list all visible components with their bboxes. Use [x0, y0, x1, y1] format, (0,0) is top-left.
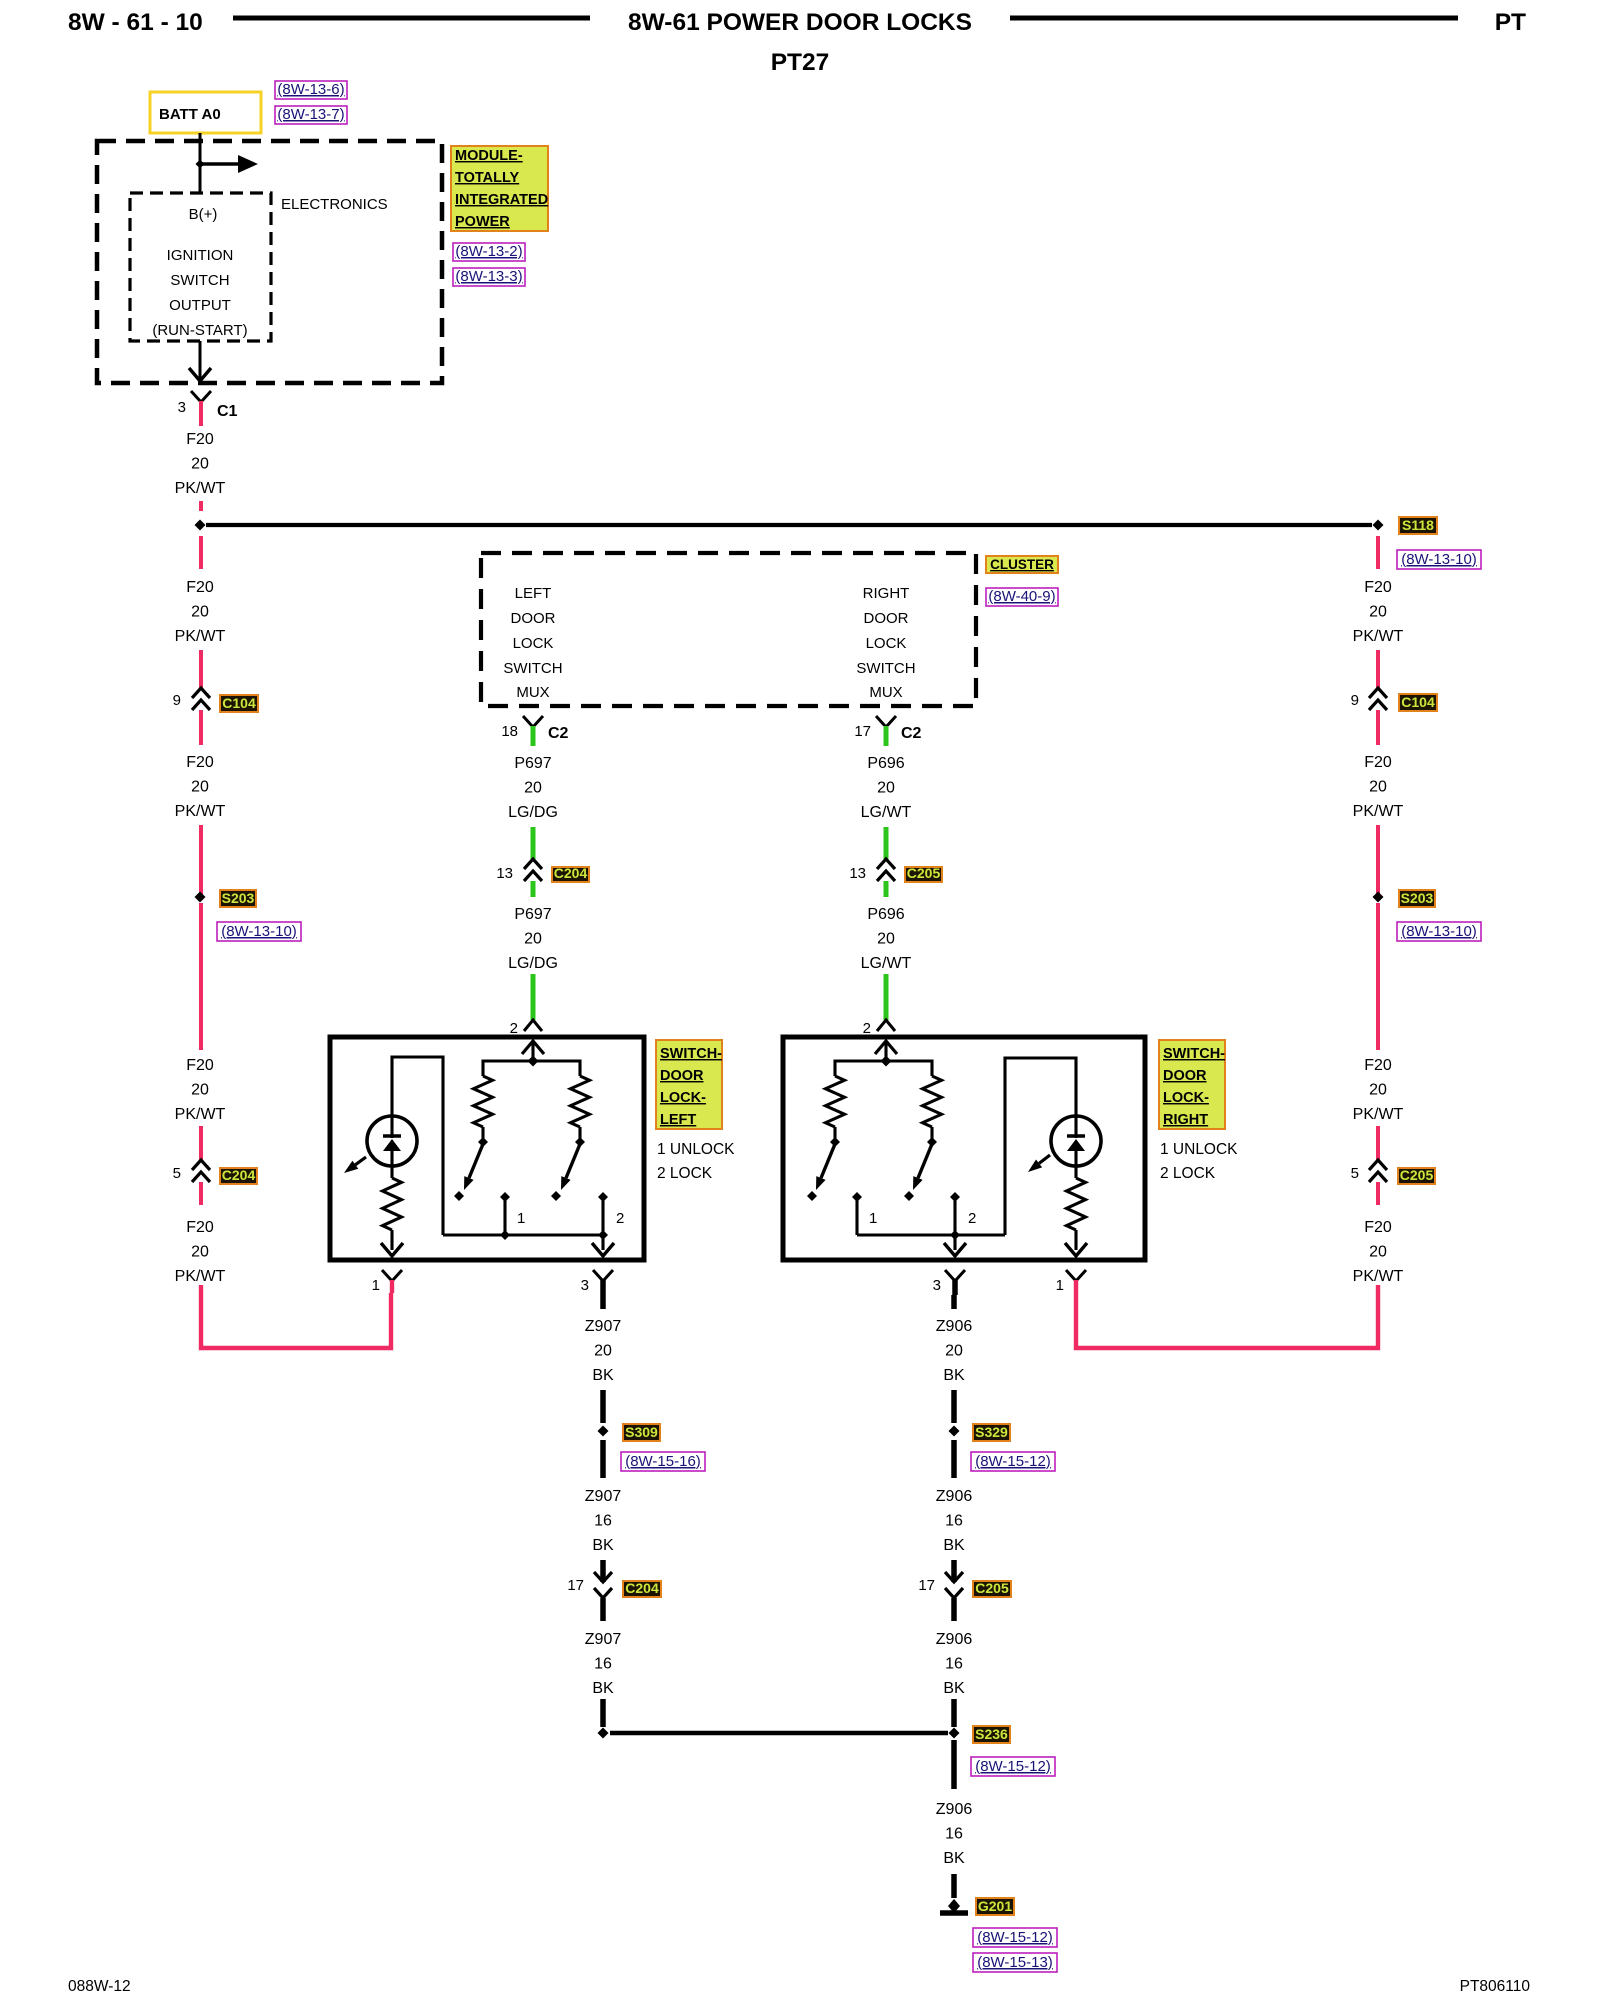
header PT — [1495, 9, 1526, 36]
label S309 — [623, 1424, 660, 1441]
svg-text:1: 1 — [1056, 1277, 1064, 1294]
junction node — [950, 1230, 960, 1240]
switch door lock right outline — [783, 1037, 1145, 1260]
resistor lock left — [571, 1076, 590, 1127]
label C205 black — [973, 1580, 1011, 1597]
svg-text:8W-61 POWER DOOR LOCKS: 8W-61 POWER DOOR LOCKS — [628, 9, 972, 36]
svg-text:LG/DG: LG/DG — [508, 955, 558, 972]
svg-text:20: 20 — [191, 456, 209, 473]
LED feed wire — [1005, 1058, 1076, 1235]
connector C104 pin 9 right — [1369, 688, 1387, 710]
svg-text:Z906: Z906 — [936, 1318, 973, 1335]
wire label F20 right 2 — [1353, 754, 1404, 820]
wire label P697 1 — [508, 755, 558, 821]
svg-text:(8W-13-10): (8W-13-10) — [1401, 923, 1477, 940]
arrow to pin 1 — [1065, 1243, 1087, 1256]
label S118 — [1399, 517, 1437, 534]
bottom tie wire — [857, 1233, 1005, 1236]
svg-text:16: 16 — [594, 1513, 612, 1530]
resistor unlock right — [826, 1076, 845, 1127]
svg-text:20: 20 — [1369, 1244, 1387, 1261]
svg-text:SWITCH-: SWITCH- — [1163, 1046, 1225, 1062]
pin number 5 — [1351, 1165, 1359, 1182]
wire — [1376, 536, 1380, 569]
reference link 8W-13-10 S118 — [1397, 550, 1481, 569]
connector C204 pin 13 — [524, 859, 542, 881]
wire label F20 left 4 — [175, 1057, 226, 1123]
LED feed wire — [392, 1057, 443, 1235]
wire — [531, 881, 536, 897]
wire — [600, 1560, 606, 1582]
wire — [531, 974, 536, 1020]
pin label 2 — [616, 1210, 624, 1227]
contact node — [904, 1191, 914, 1201]
pin number 3 — [178, 399, 186, 416]
arrow wire from pin 2 to junction — [875, 1041, 897, 1061]
svg-text:(8W-13-7): (8W-13-7) — [277, 106, 344, 123]
battery feed BATT A0 — [150, 92, 261, 133]
svg-text:20: 20 — [1369, 1082, 1387, 1099]
svg-text:Z907: Z907 — [585, 1488, 622, 1505]
label C205 pink — [1398, 1167, 1435, 1184]
LED indicator left — [367, 1116, 417, 1168]
module TIPM dashed outline — [97, 141, 442, 383]
wire — [951, 1295, 957, 1309]
label C204 pink — [220, 1167, 257, 1184]
pin number 2 — [510, 1020, 518, 1037]
svg-text:BK: BK — [592, 1680, 614, 1697]
wire — [199, 710, 203, 745]
connector pin 1 left switch — [382, 1270, 402, 1293]
wire — [1376, 710, 1380, 745]
svg-text:(8W-13-6): (8W-13-6) — [277, 81, 344, 98]
splice junction — [195, 520, 206, 531]
label ELECTRONICS — [281, 196, 388, 213]
svg-text:PK/WT: PK/WT — [1353, 628, 1404, 645]
svg-text:(RUN-START): (RUN-START) — [152, 322, 247, 339]
reference link 8W-15-12 S329 — [971, 1452, 1055, 1471]
wire label F20 right 1 — [1353, 579, 1404, 645]
label C204 green — [552, 865, 589, 882]
label right door lock switch mux — [856, 585, 915, 701]
label S203 right — [1399, 890, 1435, 907]
connector pin 2 into right switch — [877, 1020, 895, 1031]
svg-text:F20: F20 — [1364, 1057, 1392, 1074]
svg-text:G201: G201 — [978, 1898, 1012, 1914]
wire — [600, 1598, 606, 1621]
svg-text:20: 20 — [1369, 604, 1387, 621]
junction node — [881, 1056, 892, 1067]
svg-text:(8W-13-10): (8W-13-10) — [1401, 551, 1477, 568]
svg-text:LG/WT: LG/WT — [861, 955, 912, 972]
svg-text:20: 20 — [1369, 779, 1387, 796]
splice S203 — [195, 892, 206, 903]
svg-text:Z906: Z906 — [936, 1488, 973, 1505]
legend 1 unlock 2 lock — [657, 1141, 735, 1182]
module name label MODULE-TOTALLY INTEGRATED POWER — [451, 146, 548, 231]
svg-text:S118: S118 — [1402, 517, 1434, 533]
svg-text:20: 20 — [877, 931, 895, 948]
connector C205 pin 5 — [1369, 1160, 1387, 1182]
svg-text:MUX: MUX — [869, 684, 902, 701]
wire — [884, 974, 889, 1020]
svg-text:2: 2 — [616, 1210, 624, 1227]
reference link 8W-13-10 left — [217, 922, 301, 941]
svg-text:DOOR: DOOR — [1163, 1068, 1207, 1084]
pin label 1 — [517, 1210, 525, 1227]
svg-text:ELECTRONICS: ELECTRONICS — [281, 196, 388, 213]
svg-text:Z907: Z907 — [585, 1631, 622, 1648]
svg-text:2: 2 — [968, 1210, 976, 1227]
svg-text:S236: S236 — [975, 1726, 1008, 1742]
pin number 13 — [496, 865, 513, 882]
svg-text:PK/WT: PK/WT — [175, 480, 226, 497]
svg-text:1 UNLOCK: 1 UNLOCK — [657, 1141, 735, 1158]
svg-text:20: 20 — [191, 604, 209, 621]
wire — [600, 1295, 606, 1309]
svg-text:MODULE-: MODULE- — [455, 148, 523, 164]
connector C204 pin 5 — [192, 1160, 210, 1182]
wire label F20 left 3 — [175, 754, 226, 820]
pin number 2 — [863, 1020, 871, 1037]
svg-text:P696: P696 — [867, 906, 904, 923]
wire — [1376, 650, 1380, 688]
pin number 9 — [173, 692, 181, 709]
svg-text:088W-12: 088W-12 — [68, 1978, 131, 1995]
wire — [1376, 825, 1380, 897]
svg-text:BK: BK — [943, 1850, 965, 1867]
svg-text:3: 3 — [933, 1277, 941, 1294]
wire — [199, 650, 203, 688]
splice S236 — [949, 1728, 960, 1739]
svg-text:20: 20 — [594, 1343, 612, 1360]
svg-text:C205: C205 — [975, 1580, 1009, 1596]
header title — [628, 9, 972, 36]
wire — [199, 825, 203, 897]
svg-text:P696: P696 — [867, 755, 904, 772]
pin 1 stub — [855, 1198, 858, 1235]
wire label F20 left 2 — [175, 579, 226, 645]
wire resistor to switch pivot — [930, 1127, 933, 1139]
pivot node — [830, 1137, 840, 1147]
svg-text:16: 16 — [945, 1826, 963, 1843]
svg-text:DOOR: DOOR — [511, 610, 556, 627]
svg-text:CLUSTER: CLUSTER — [990, 557, 1054, 572]
svg-text:F20: F20 — [1364, 579, 1392, 596]
svg-text:5: 5 — [1351, 1165, 1359, 1182]
svg-text:S309: S309 — [625, 1424, 658, 1440]
svg-text:2: 2 — [510, 1020, 518, 1037]
pin number 13 — [849, 865, 866, 882]
connector pin 3 right switch — [945, 1270, 965, 1295]
svg-text:INTEGRATED: INTEGRATED — [455, 192, 548, 208]
svg-text:(8W-15-12): (8W-15-12) — [975, 1453, 1051, 1470]
svg-text:IGNITION: IGNITION — [167, 247, 234, 264]
svg-text:20: 20 — [524, 931, 542, 948]
svg-text:8W - 61 - 10: 8W - 61 - 10 — [68, 9, 203, 36]
wire — [884, 881, 889, 897]
wire label P697 2 — [508, 906, 558, 972]
svg-text:BK: BK — [943, 1537, 965, 1554]
reference link 8W-13-7 — [275, 106, 347, 124]
arrow to pin 1 — [381, 1243, 403, 1256]
reference link 8W-15-13 G201 — [973, 1953, 1057, 1972]
splice S309 — [598, 1426, 609, 1437]
junction node — [528, 1056, 539, 1067]
label C205 green — [905, 865, 942, 882]
svg-text:RIGHT: RIGHT — [863, 585, 910, 602]
legend 1 unlock 2 lock — [1160, 1141, 1238, 1182]
wire — [951, 1390, 957, 1423]
reference link 8W-15-16 — [621, 1452, 705, 1471]
svg-text:LEFT: LEFT — [515, 585, 552, 602]
pin number 9 — [1351, 692, 1359, 709]
wire — [1376, 1182, 1380, 1205]
splice S329 — [949, 1426, 960, 1437]
label B(+) — [189, 206, 218, 223]
svg-text:PK/WT: PK/WT — [1353, 1268, 1404, 1285]
svg-text:3: 3 — [581, 1277, 589, 1294]
wire — [600, 1390, 606, 1423]
pin number 3 — [933, 1277, 941, 1294]
pin label 1 — [869, 1210, 877, 1227]
wire label Z907 3 — [585, 1631, 622, 1697]
contact node — [807, 1191, 817, 1201]
svg-text:C2: C2 — [901, 725, 922, 742]
switch arm lock right — [913, 1144, 932, 1190]
svg-text:SWITCH-: SWITCH- — [660, 1046, 722, 1062]
svg-text:16: 16 — [594, 1656, 612, 1673]
pin 2 stub — [601, 1198, 604, 1250]
svg-text:3: 3 — [178, 399, 186, 416]
wire resistor to switch pivot — [833, 1127, 836, 1139]
cluster dashed outline — [481, 553, 976, 706]
wire label Z907 2 — [585, 1488, 622, 1554]
wire label Z907 1 — [585, 1318, 622, 1384]
svg-text:DOOR: DOOR — [864, 610, 909, 627]
svg-text:LOCK: LOCK — [866, 635, 907, 652]
svg-text:Z907: Z907 — [585, 1318, 622, 1335]
svg-text:MUX: MUX — [516, 684, 549, 701]
wire — [951, 1598, 957, 1621]
connector C104 pin 9 — [192, 688, 210, 710]
connector C205 pin 17 — [945, 1572, 963, 1598]
svg-text:2: 2 — [863, 1020, 871, 1037]
svg-text:1: 1 — [517, 1210, 525, 1227]
svg-text:17: 17 — [567, 1577, 584, 1594]
switch arm unlock left — [464, 1144, 483, 1190]
svg-text:LOCK-: LOCK- — [1163, 1090, 1209, 1106]
pin 1 stub — [503, 1198, 506, 1235]
arrow into connector C1 — [189, 368, 211, 381]
svg-text:PT: PT — [1495, 9, 1526, 36]
wire label Z906 1 — [936, 1318, 973, 1384]
connector C2 pin 18 — [523, 716, 543, 746]
svg-text:PT806110: PT806110 — [1460, 1978, 1531, 1995]
svg-text:F20: F20 — [186, 1219, 214, 1236]
svg-text:BK: BK — [943, 1367, 965, 1384]
wire pink return to left switch — [201, 1285, 391, 1348]
svg-text:1: 1 — [869, 1210, 877, 1227]
header subtitle PT27 — [771, 49, 830, 76]
svg-text:Z906: Z906 — [936, 1631, 973, 1648]
svg-text:RIGHT: RIGHT — [1163, 1112, 1208, 1128]
connector label C1 — [217, 403, 238, 420]
reference link 8W-15-12 S236 — [971, 1757, 1055, 1776]
wire — [1376, 1126, 1380, 1160]
svg-text:PT27: PT27 — [771, 49, 830, 76]
svg-text:Z906: Z906 — [936, 1801, 973, 1818]
svg-text:20: 20 — [191, 779, 209, 796]
svg-text:(8W-13-10): (8W-13-10) — [221, 923, 297, 940]
wire label Z906 4 — [936, 1801, 973, 1867]
svg-text:17: 17 — [854, 723, 871, 740]
pivot node — [575, 1137, 585, 1147]
footer drawing number — [1460, 1978, 1531, 1995]
resistor LED left — [383, 1178, 402, 1230]
wire to resistor tops — [483, 1061, 580, 1076]
svg-text:OUTPUT: OUTPUT — [169, 297, 231, 314]
node pin 1 — [500, 1192, 510, 1202]
label G201 — [976, 1898, 1014, 1915]
connector pin 3 left switch — [593, 1270, 613, 1295]
svg-text:S329: S329 — [975, 1424, 1008, 1440]
label ignition switch output — [152, 247, 247, 339]
svg-text:F20: F20 — [1364, 754, 1392, 771]
svg-text:C204: C204 — [625, 1580, 659, 1596]
svg-text:PK/WT: PK/WT — [1353, 1106, 1404, 1123]
wire — [1376, 903, 1380, 1050]
reference link 8W-15-12 G201 — [973, 1928, 1057, 1947]
svg-text:C1: C1 — [217, 403, 238, 420]
switch name label left — [656, 1040, 722, 1129]
pin number 18 — [501, 723, 518, 740]
svg-text:C205: C205 — [907, 865, 941, 881]
pin number 1 — [372, 1277, 380, 1294]
label left door lock switch mux — [503, 585, 562, 701]
reference link 8W-13-3 — [453, 268, 525, 286]
connector pin 2 into left switch — [524, 1020, 542, 1031]
svg-text:BK: BK — [943, 1680, 965, 1697]
contact node — [551, 1191, 561, 1201]
svg-text:POWER: POWER — [455, 214, 510, 230]
svg-text:20: 20 — [524, 780, 542, 797]
svg-text:DOOR: DOOR — [660, 1068, 704, 1084]
svg-text:BATT A0: BATT A0 — [159, 106, 221, 123]
header page number — [68, 9, 203, 36]
wire label Z906 2 — [936, 1488, 973, 1554]
pin number 5 — [173, 1165, 181, 1182]
switch arm unlock right — [816, 1144, 835, 1190]
svg-text:(8W-15-16): (8W-15-16) — [625, 1453, 701, 1470]
svg-text:20: 20 — [191, 1082, 209, 1099]
node pin 2 — [598, 1192, 608, 1202]
pin 2 stub — [953, 1198, 956, 1250]
svg-text:PK/WT: PK/WT — [175, 1106, 226, 1123]
svg-text:16: 16 — [945, 1656, 963, 1673]
wire label P696 2 — [861, 906, 912, 972]
svg-text:2 LOCK: 2 LOCK — [657, 1165, 713, 1182]
label S329 — [973, 1424, 1010, 1441]
svg-text:17: 17 — [918, 1577, 935, 1594]
wire from BATT A0 into module — [199, 133, 202, 193]
wire tie to S236 — [610, 1731, 948, 1736]
svg-text:13: 13 — [496, 865, 513, 882]
junction — [196, 160, 205, 169]
connector C205 pin 13 — [877, 859, 895, 881]
reference link 8W-13-2 — [453, 243, 525, 261]
svg-text:1: 1 — [372, 1277, 380, 1294]
wire inner box to module edge — [199, 341, 202, 381]
svg-text:(8W-15-13): (8W-15-13) — [977, 1954, 1053, 1971]
pin label 2 — [968, 1210, 976, 1227]
svg-text:C104: C104 — [1401, 694, 1435, 710]
wire — [600, 1440, 606, 1478]
switch arm lock left — [561, 1144, 580, 1190]
wire LED resistor to box edge — [390, 1168, 393, 1250]
svg-text:C204: C204 — [222, 1167, 256, 1183]
node pin 1 — [852, 1192, 862, 1202]
svg-text:PK/WT: PK/WT — [175, 803, 226, 820]
svg-text:SWITCH: SWITCH — [170, 272, 229, 289]
svg-text:13: 13 — [849, 865, 866, 882]
label S236 — [973, 1726, 1010, 1743]
svg-text:BK: BK — [592, 1367, 614, 1384]
resistor unlock left — [474, 1076, 493, 1127]
cluster name label — [986, 556, 1058, 573]
svg-text:S203: S203 — [222, 890, 255, 906]
svg-text:9: 9 — [1351, 692, 1359, 709]
wire — [951, 1440, 957, 1478]
wire — [199, 903, 203, 1050]
label C104 right — [1399, 694, 1437, 711]
label S203 — [220, 890, 256, 907]
svg-text:F20: F20 — [186, 1057, 214, 1074]
wire label P696 1 — [861, 755, 912, 821]
junction to S236 — [598, 1728, 609, 1739]
ground G201 — [940, 1899, 968, 1913]
bottom tie wire — [443, 1233, 603, 1236]
wire — [531, 827, 536, 859]
svg-text:C205: C205 — [1400, 1167, 1434, 1183]
reference link 8W-13-10 right — [1397, 922, 1481, 941]
svg-text:(8W-13-3): (8W-13-3) — [455, 268, 522, 285]
svg-text:20: 20 — [191, 1244, 209, 1261]
LED arrow left — [344, 1157, 366, 1173]
svg-text:20: 20 — [945, 1343, 963, 1360]
svg-text:PK/WT: PK/WT — [175, 1268, 226, 1285]
label C204 black — [623, 1580, 661, 1597]
arrow to pin 3 — [592, 1243, 614, 1256]
svg-text:PK/WT: PK/WT — [1353, 803, 1404, 820]
label C104 — [220, 695, 258, 712]
wire — [600, 1699, 606, 1727]
ignition switch output inner dashed box — [130, 193, 271, 341]
wire pink return to right switch — [1076, 1285, 1378, 1348]
svg-text:SWITCH: SWITCH — [856, 660, 915, 677]
wire label Z906 3 — [936, 1631, 973, 1697]
svg-text:(8W-13-2): (8W-13-2) — [455, 243, 522, 260]
wire — [951, 1874, 957, 1898]
svg-text:9: 9 — [173, 692, 181, 709]
svg-text:F20: F20 — [186, 754, 214, 771]
svg-text:SWITCH: SWITCH — [503, 660, 562, 677]
svg-text:(8W-15-12): (8W-15-12) — [977, 1929, 1053, 1946]
svg-text:B(+): B(+) — [189, 206, 218, 223]
pivot node — [478, 1137, 488, 1147]
pin number 17 — [854, 723, 871, 740]
svg-text:18: 18 — [501, 723, 518, 740]
